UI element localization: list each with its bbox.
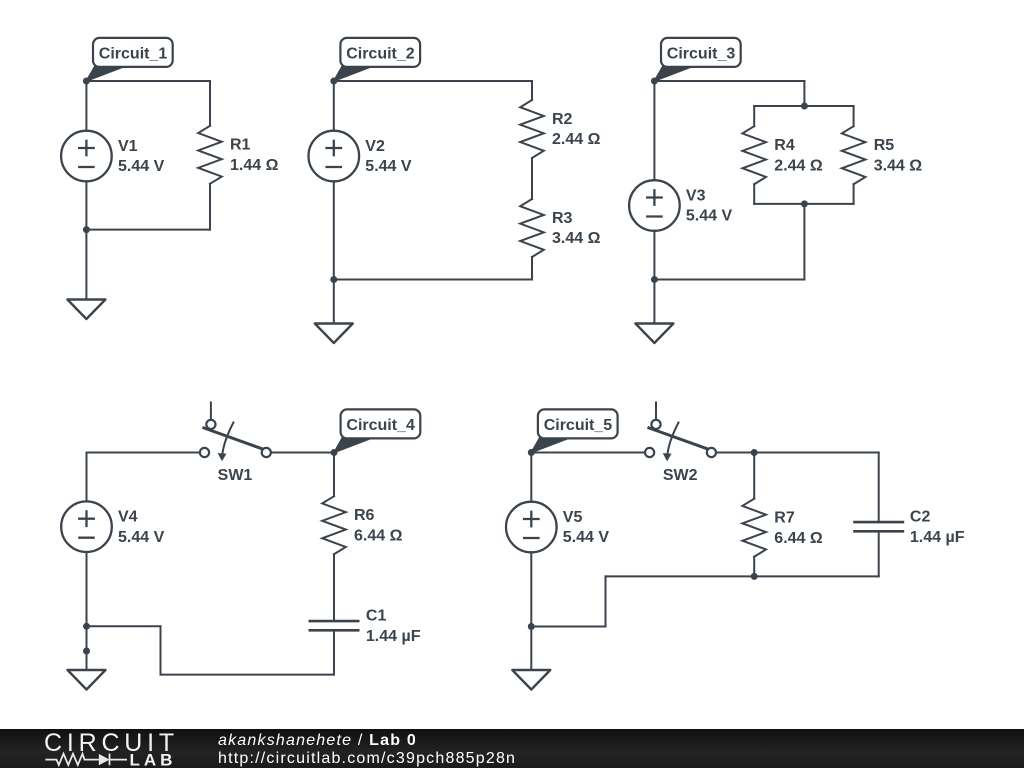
wire left rail lower c3 bbox=[653, 231, 655, 280]
resistor R3 bbox=[520, 199, 544, 257]
capacitor C2 bbox=[853, 522, 904, 531]
wire bottom rail c1 bbox=[86, 229, 210, 231]
svg-text:2.44 Ω: 2.44 Ω bbox=[552, 131, 601, 148]
svg-text:V4: V4 bbox=[118, 509, 138, 526]
label V5 value bbox=[563, 509, 610, 546]
callout Circuit_4 bbox=[334, 409, 420, 452]
wire right rail upper c1 bbox=[209, 81, 211, 126]
resistor R5 bbox=[842, 126, 866, 184]
wire top left rail c4 bbox=[87, 452, 200, 454]
wire bottom rail c4 bbox=[161, 674, 335, 676]
wire right rail lower c2 bbox=[531, 257, 533, 280]
svg-text:6.44 Ω: 6.44 Ω bbox=[354, 527, 403, 544]
svg-text:2.44 Ω: 2.44 Ω bbox=[774, 157, 823, 174]
callout Circuit_3 bbox=[654, 38, 740, 81]
resistor R2 bbox=[520, 100, 544, 158]
wire between R2 R3 bbox=[531, 158, 533, 199]
label R1 value bbox=[230, 137, 279, 174]
wire R6 top lead bbox=[333, 453, 335, 497]
svg-text:R5: R5 bbox=[874, 137, 895, 154]
label R7 value bbox=[774, 510, 823, 547]
wire bottom drop c3 bbox=[803, 204, 805, 280]
svg-text:LAB: LAB bbox=[130, 751, 177, 768]
svg-text:Circuit_1: Circuit_1 bbox=[99, 46, 168, 63]
wire top rail c3 bbox=[654, 80, 804, 82]
wire bottom link c4 bbox=[87, 625, 161, 627]
wire right rail lower c1 bbox=[209, 184, 211, 230]
svg-text:Circuit_5: Circuit_5 bbox=[544, 417, 613, 434]
wire parallel bottom rail c3 bbox=[754, 203, 853, 205]
label C2 value bbox=[910, 509, 965, 546]
wire left rail upper c4 bbox=[86, 453, 88, 502]
wire top rail right c5 bbox=[754, 452, 879, 454]
label V3 value bbox=[686, 187, 733, 224]
wire R6 to C1 bbox=[333, 554, 335, 621]
node A5 bbox=[528, 449, 535, 456]
wire R7 bottom lead bbox=[753, 557, 755, 577]
wire ground stub c1 bbox=[85, 230, 87, 300]
svg-text:V1: V1 bbox=[118, 138, 138, 155]
voltage source V4 bbox=[61, 501, 112, 552]
wire bottom rail c5 bbox=[606, 575, 879, 577]
node B5 bbox=[528, 623, 535, 630]
svg-text:1.44 µF: 1.44 µF bbox=[910, 529, 965, 546]
wire R5 bottom lead bbox=[853, 184, 855, 204]
svg-text:1.44 Ω: 1.44 Ω bbox=[230, 157, 279, 174]
wire R7 top lead bbox=[753, 453, 755, 499]
node A1 bbox=[83, 78, 90, 85]
wire left rail upper c5 bbox=[530, 453, 532, 502]
svg-text:R1: R1 bbox=[230, 137, 251, 154]
voltage source V1 bbox=[61, 131, 112, 182]
svg-text:R6: R6 bbox=[354, 507, 375, 524]
wire bottom riser c4 bbox=[160, 626, 162, 674]
switch SW1 bbox=[200, 403, 271, 462]
wire top left rail c5 bbox=[531, 452, 645, 454]
node B4 bbox=[83, 623, 90, 630]
svg-text:R3: R3 bbox=[552, 210, 573, 227]
svg-text:3.44 Ω: 3.44 Ω bbox=[874, 157, 923, 174]
label R3 value bbox=[552, 210, 601, 247]
svg-text:R7: R7 bbox=[774, 510, 795, 527]
wire right rail upper c2 bbox=[531, 81, 533, 100]
wire left rail upper c2 bbox=[333, 81, 335, 131]
ground c2 bbox=[315, 324, 353, 344]
callout Circuit_1 bbox=[86, 38, 172, 81]
node B2 bbox=[330, 276, 337, 283]
node P3 bottom bbox=[801, 200, 808, 207]
wire bottom link c5 bbox=[531, 626, 605, 628]
node C5 bottom bbox=[751, 573, 758, 580]
switch SW2 bbox=[645, 403, 716, 462]
ground c5 bbox=[512, 670, 550, 690]
label V1 value bbox=[118, 138, 165, 175]
wire top drop c3 bbox=[803, 81, 805, 106]
svg-text:V3: V3 bbox=[686, 187, 706, 204]
voltage source V3 bbox=[629, 180, 680, 231]
node C5 top bbox=[751, 449, 758, 456]
label C1 value bbox=[366, 608, 421, 645]
voltage source V5 bbox=[506, 502, 557, 553]
svg-text:5.44 V: 5.44 V bbox=[118, 529, 165, 546]
svg-text:Circuit_3: Circuit_3 bbox=[667, 46, 736, 63]
footer text bbox=[218, 732, 516, 767]
node B3 bbox=[651, 276, 658, 283]
label R2 value bbox=[552, 111, 601, 148]
ground c1 bbox=[67, 300, 105, 320]
wire R4 bottom lead bbox=[753, 184, 755, 204]
CircuitLab logo bbox=[0, 729, 180, 768]
wire top rail c2 bbox=[334, 80, 532, 82]
wire top rail c1 bbox=[86, 80, 210, 82]
callout Circuit_2 bbox=[334, 38, 420, 81]
resistor R6 bbox=[322, 496, 346, 554]
wire C2 bottom lead bbox=[878, 531, 880, 576]
wire bottom riser c5 bbox=[605, 576, 607, 626]
wire ground link c4 bbox=[86, 626, 88, 651]
node A3 bbox=[651, 78, 658, 85]
wire C2 top lead bbox=[878, 453, 880, 523]
svg-text:V2: V2 bbox=[365, 138, 385, 155]
wire left rail upper c3 bbox=[653, 81, 655, 180]
wire R5 top lead bbox=[853, 106, 855, 126]
wire ground stub c3 bbox=[653, 280, 655, 324]
capacitor C1 bbox=[309, 621, 360, 630]
wire left rail lower c5 bbox=[530, 552, 532, 626]
wire switch to node c4 bbox=[271, 452, 334, 454]
svg-text:Circuit_4: Circuit_4 bbox=[346, 417, 415, 434]
svg-text:6.44 Ω: 6.44 Ω bbox=[774, 530, 823, 547]
node A4 bbox=[331, 449, 338, 456]
wire parallel top rail c3 bbox=[754, 105, 853, 107]
wire switch to node c5 bbox=[716, 452, 754, 454]
label R4 value bbox=[774, 137, 823, 174]
wire left rail lower c2 bbox=[333, 181, 335, 279]
svg-text:SW2: SW2 bbox=[663, 467, 698, 484]
wire left rail upper c1 bbox=[85, 81, 87, 131]
svg-text:C1: C1 bbox=[366, 608, 387, 625]
ground c3 bbox=[635, 324, 673, 344]
wire C1 bottom lead bbox=[333, 630, 335, 674]
wire R4 top lead bbox=[753, 106, 755, 126]
svg-text:1.44 µF: 1.44 µF bbox=[366, 628, 421, 645]
node G4 bbox=[83, 648, 90, 655]
node P3 top bbox=[801, 103, 808, 110]
wire bottom rail c3 bbox=[654, 279, 804, 281]
svg-text:R4: R4 bbox=[774, 137, 795, 154]
node A2 bbox=[330, 78, 337, 85]
wire left rail lower c4 bbox=[86, 552, 88, 626]
svg-text:5.44 V: 5.44 V bbox=[563, 529, 610, 546]
resistor R1 bbox=[198, 126, 222, 184]
svg-text:5.44 V: 5.44 V bbox=[118, 158, 165, 175]
svg-text:V5: V5 bbox=[563, 509, 583, 526]
wire ground stub c2 bbox=[333, 280, 335, 324]
voltage source V2 bbox=[309, 131, 360, 182]
label R6 value bbox=[354, 507, 403, 544]
wire left rail lower c1 bbox=[85, 181, 87, 229]
footer bar bbox=[0, 729, 1024, 768]
svg-text:R2: R2 bbox=[552, 111, 573, 128]
resistor R7 bbox=[742, 499, 766, 557]
label V4 value bbox=[118, 509, 165, 546]
label R5 value bbox=[874, 137, 923, 174]
svg-text:Circuit_2: Circuit_2 bbox=[346, 46, 415, 63]
wire bottom rail c2 bbox=[334, 279, 532, 281]
resistor R4 bbox=[742, 126, 766, 184]
node B1 bbox=[83, 226, 90, 233]
wire ground stub c4 bbox=[86, 651, 88, 676]
svg-text:C2: C2 bbox=[910, 509, 931, 526]
svg-text:SW1: SW1 bbox=[218, 467, 253, 484]
svg-text:3.44 Ω: 3.44 Ω bbox=[552, 230, 601, 247]
svg-text:5.44 V: 5.44 V bbox=[365, 158, 412, 175]
wire ground stub c5 bbox=[530, 627, 532, 671]
label V2 value bbox=[365, 138, 412, 175]
svg-text:5.44 V: 5.44 V bbox=[686, 208, 733, 225]
ground c4 bbox=[68, 670, 106, 690]
callout Circuit_5 bbox=[531, 409, 617, 452]
